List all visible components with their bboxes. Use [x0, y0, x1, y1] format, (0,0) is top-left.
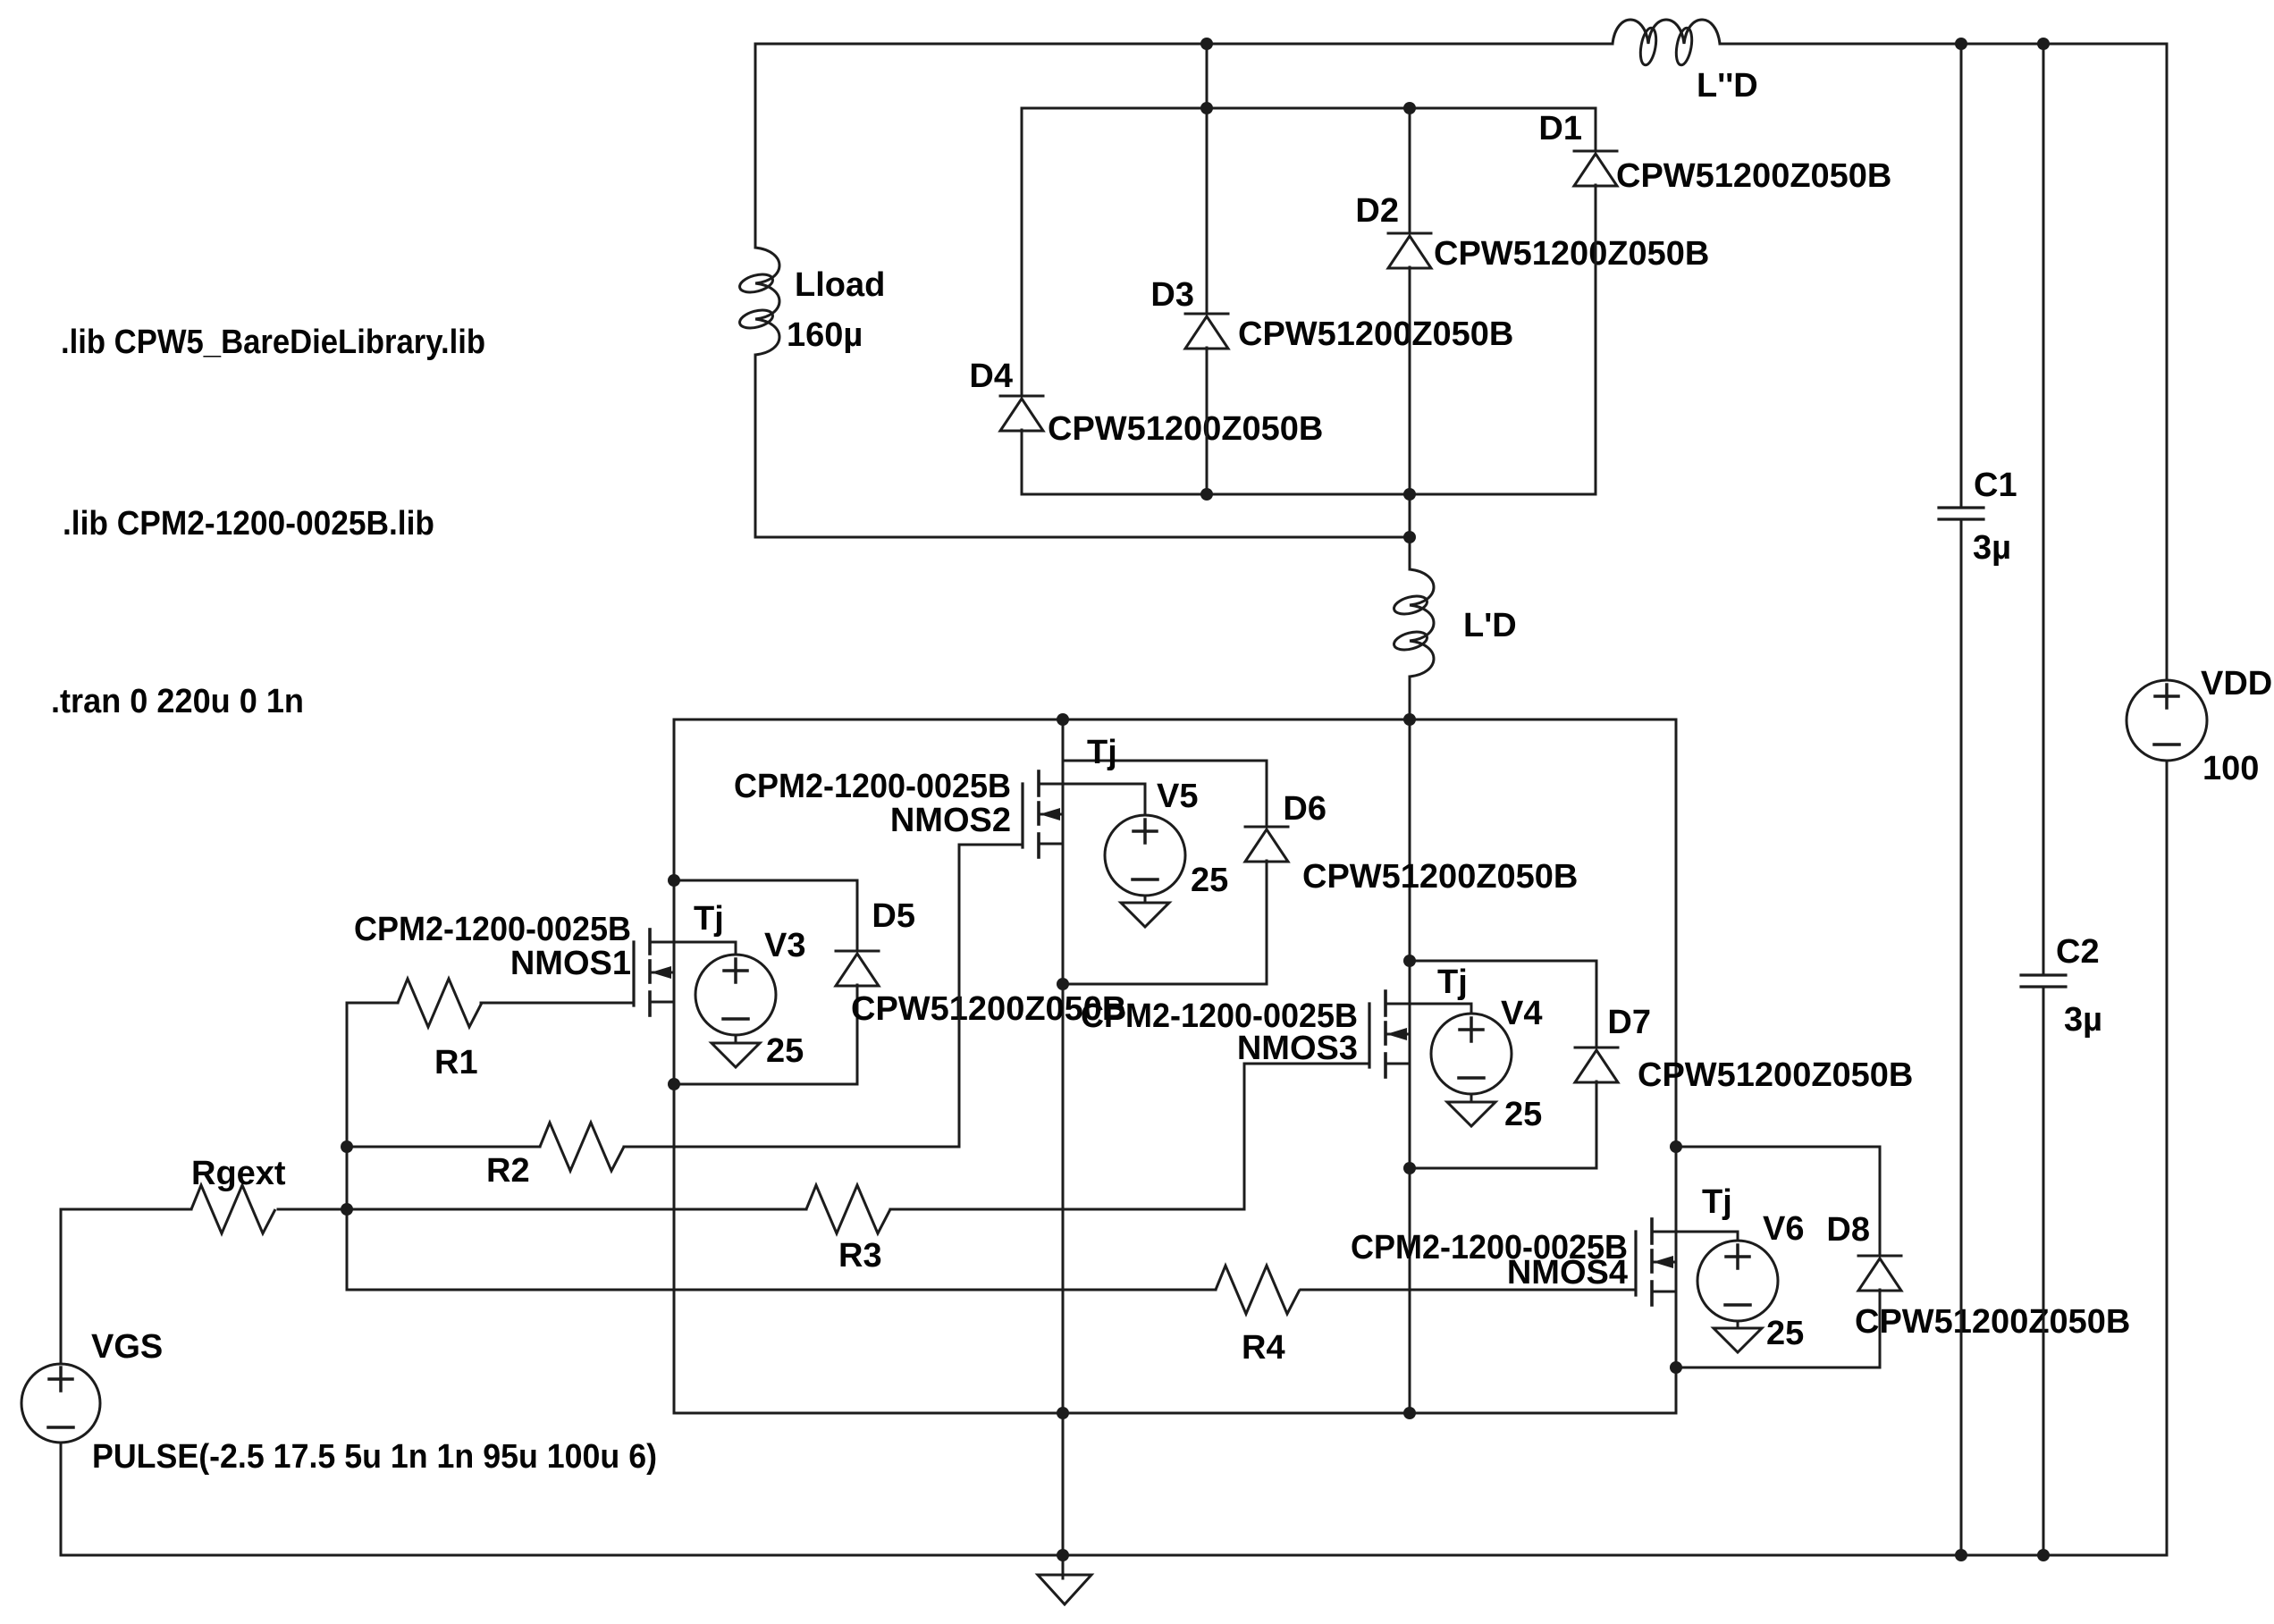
- svg-text:25: 25: [1766, 1315, 1804, 1352]
- ground below V6: [1714, 1328, 1762, 1352]
- wire: V3/D5 box bottom: [674, 1083, 857, 1086]
- svg-text:D8: D8: [1826, 1211, 1870, 1249]
- svg-text:D3: D3: [1150, 276, 1194, 314]
- svg-text:CPW51200Z050B: CPW51200Z050B: [1638, 1056, 1913, 1094]
- ground below V5: [1121, 903, 1169, 927]
- wire: D4 column: [1021, 108, 1023, 396]
- svg-text:3µ: 3µ: [2064, 1001, 2102, 1039]
- voltage source VDD 100: [2127, 680, 2207, 761]
- wire: V4/D7 box bottom: [1410, 1167, 1596, 1170]
- wire: NMOS1 drain lead / Tj to V3: [650, 941, 736, 944]
- voltage source V4 (Tj temperature 25): [1431, 1014, 1512, 1094]
- node: D3 top rail tap: [1200, 38, 1213, 50]
- node: top rail / C2: [2037, 38, 2050, 50]
- wire: V3 minus stub: [735, 1035, 737, 1043]
- wire: V6 minus stub: [1737, 1321, 1739, 1328]
- capacitor C1 3u: [1939, 506, 1983, 509]
- svg-text:V5: V5: [1157, 778, 1198, 815]
- transistor NMOS2 CPM2-1200-0025B: [1023, 771, 1063, 857]
- voltage source V6 (Tj temperature 25): [1697, 1241, 1778, 1321]
- node: D3 inner box bottom: [1200, 488, 1213, 501]
- diode D2 CPW51200Z050B: [1388, 232, 1431, 235]
- voltage source VGS PULSE: [21, 1364, 100, 1443]
- voltage source V5 (Tj temperature 25): [1105, 815, 1185, 896]
- wire: V6/D8 box top: [1676, 1146, 1880, 1149]
- svg-text:Tj: Tj: [1437, 963, 1468, 1001]
- svg-text:Tj: Tj: [1087, 734, 1117, 771]
- voltage source V3 (Tj temperature 25): [695, 955, 776, 1035]
- ground below V4: [1447, 1102, 1495, 1126]
- wire: V5 minus stub: [1144, 896, 1147, 903]
- diode D6 CPW51200Z050B: [1245, 826, 1288, 829]
- ground below V3: [712, 1043, 760, 1067]
- resistor R4: [347, 1289, 1216, 1292]
- node: L'D on top rail: [1403, 713, 1416, 726]
- wire: V4 plus stub: [1470, 1004, 1473, 1014]
- node: NMOS3 drain box corner: [1403, 955, 1416, 967]
- node: D2 inner box top: [1403, 102, 1416, 114]
- diode D3 CPW51200Z050B: [1185, 313, 1228, 316]
- svg-text:NMOS4: NMOS4: [1507, 1254, 1628, 1292]
- wire: D2 column to switch node: [1409, 494, 1411, 569]
- wire: C1 column: [1960, 44, 1963, 508]
- svg-text:C1: C1: [1974, 467, 2017, 504]
- svg-text:Rgext: Rgext: [191, 1155, 286, 1192]
- svg-text:100: 100: [2202, 750, 2259, 787]
- wire: inner diode box bottom: [1022, 493, 1596, 496]
- svg-text:V4: V4: [1501, 995, 1542, 1032]
- wire: NMOS2 Tj line / V5-D6 box top: [1063, 760, 1267, 762]
- node: NMOS4 source box corner: [1670, 1361, 1682, 1374]
- svg-text:25: 25: [1191, 862, 1228, 899]
- node: bottom rail / NMOS3 source column: [1403, 1407, 1416, 1419]
- wire: NMOS3 source column: [1409, 719, 1411, 1413]
- node: ground rail / C2: [2037, 1549, 2050, 1561]
- svg-text:R3: R3: [838, 1237, 882, 1275]
- svg-text:3µ: 3µ: [1973, 529, 2011, 567]
- resistor R2: [347, 1146, 540, 1149]
- svg-text:D7: D7: [1607, 1004, 1651, 1041]
- wire: VDD column top: [2166, 44, 2169, 680]
- wire: NMOS3 drain lead to V4: [1385, 1003, 1471, 1006]
- svg-text:Lload: Lload: [795, 266, 885, 304]
- wire: V4/D7 box top: [1410, 960, 1596, 963]
- svg-text:160µ: 160µ: [787, 316, 863, 354]
- inductor L''D: [1613, 20, 1720, 44]
- svg-text:D6: D6: [1283, 790, 1326, 828]
- node: NMOS1 source box corner: [668, 1078, 680, 1090]
- capacitor C2 3u: [2021, 973, 2066, 976]
- diode D1 CPW51200Z050B: [1574, 150, 1617, 153]
- node: NMOS4 drain box corner: [1670, 1140, 1682, 1153]
- wire: NMOS3 gate riser from R3: [1243, 1064, 1246, 1209]
- wire: bridge to ground rail: [1062, 1413, 1065, 1555]
- svg-text:L'D: L'D: [1463, 607, 1517, 644]
- wire: V5/D6 box bottom: [1063, 983, 1267, 986]
- node: top rail / C1: [1955, 38, 1967, 50]
- svg-text:VGS: VGS: [91, 1328, 163, 1366]
- wire: D2 column: [1409, 108, 1411, 233]
- svg-text:CPW51200Z050B: CPW51200Z050B: [1238, 316, 1513, 353]
- wire: VDD to ground rail: [2166, 761, 2169, 1555]
- wire: D3 column: [1206, 44, 1209, 314]
- node: D3 inner box top: [1200, 102, 1213, 114]
- svg-text:V6: V6: [1763, 1210, 1804, 1248]
- wire: VGS to Rgext: [60, 1209, 63, 1364]
- transistor NMOS4 CPM2-1200-0025B: [1636, 1219, 1676, 1305]
- node: V5 box bottom on source column: [1057, 978, 1069, 990]
- node: R2 tap: [341, 1140, 353, 1153]
- svg-text:CPM2-1200-0025B: CPM2-1200-0025B: [354, 911, 631, 948]
- diode D7 CPW51200Z050B: [1575, 1047, 1618, 1049]
- svg-text:PULSE(-2.5 17.5 5u 1n 1n 95u 1: PULSE(-2.5 17.5 5u 1n 1n 95u 100u 6): [92, 1438, 657, 1476]
- inductor Lload 160u: [755, 248, 779, 355]
- svg-text:L''D: L''D: [1697, 67, 1758, 105]
- svg-text:NMOS1: NMOS1: [510, 945, 631, 982]
- wire: NMOS3 gate lead: [1244, 1063, 1369, 1065]
- wire: V4 minus stub: [1470, 1094, 1473, 1102]
- wire: V6 plus stub: [1737, 1232, 1739, 1241]
- wire: L'D to bridge top rail: [1409, 677, 1411, 719]
- diode D4 CPW51200Z050B: [1000, 395, 1043, 398]
- node: bottom rail / NMOS2 source column: [1057, 1407, 1069, 1419]
- wire: D5 column: [856, 880, 859, 951]
- wire: outer loop bottom: [755, 536, 1410, 539]
- svg-text:CPM2-1200-0025B: CPM2-1200-0025B: [734, 768, 1011, 805]
- svg-text:R4: R4: [1242, 1329, 1285, 1367]
- wire: D8 column: [1879, 1147, 1882, 1256]
- wire: C2 column: [2042, 44, 2045, 975]
- transistor NMOS3 CPM2-1200-0025B: [1369, 991, 1410, 1077]
- ground symbol: [1062, 1555, 1065, 1578]
- svg-text:Tj: Tj: [1702, 1183, 1732, 1221]
- wire: bridge left edge: [673, 719, 676, 1413]
- svg-text:V3: V3: [764, 927, 805, 964]
- wire: NMOS2 source column: [1062, 719, 1065, 1413]
- wire: D1 column: [1595, 108, 1597, 151]
- wire: NMOS4 drain lead to V6: [1652, 1231, 1738, 1233]
- resistor Rgext: [61, 1208, 191, 1211]
- node: ground rail / bridge column: [1057, 1549, 1069, 1561]
- svg-text:.tran 0 220u 0 1n: .tran 0 220u 0 1n: [51, 683, 304, 720]
- svg-text:R1: R1: [434, 1044, 478, 1081]
- inductor L'D: [1410, 569, 1434, 677]
- wire: V5 plus stub: [1144, 784, 1147, 815]
- wire: V3/D5 box top: [674, 879, 857, 882]
- wire: VGS to ground rail: [60, 1443, 63, 1555]
- node: ground rail / C1: [1955, 1549, 1967, 1561]
- svg-text:D2: D2: [1355, 192, 1399, 230]
- svg-text:VDD: VDD: [2201, 665, 2272, 703]
- node: D2 inner box bottom: [1403, 488, 1416, 501]
- node: NMOS3 source box corner: [1403, 1162, 1416, 1174]
- wire: bridge right edge: [1675, 719, 1678, 1413]
- wire: V6/D8 box bottom: [1676, 1367, 1880, 1369]
- wire: D7 column: [1596, 961, 1598, 1048]
- wire: ground rail: [61, 1554, 2167, 1557]
- wire: top supply rail: [755, 43, 1613, 46]
- wire: NMOS2 drain lead to V5: [1039, 783, 1145, 786]
- svg-text:25: 25: [1504, 1096, 1542, 1133]
- wire: bridge top rail: [674, 719, 1676, 721]
- wire: NMOS2 gate riser from R2: [958, 845, 961, 1147]
- wire: gate bus column: [346, 1003, 349, 1290]
- svg-text:C2: C2: [2056, 933, 2100, 971]
- wire: bridge bottom rail: [674, 1412, 1676, 1415]
- svg-text:D5: D5: [872, 897, 915, 935]
- wire: V3 plus stub: [735, 942, 737, 955]
- svg-text:D4: D4: [969, 358, 1013, 395]
- svg-text:NMOS3: NMOS3: [1237, 1030, 1358, 1067]
- svg-text:R2: R2: [486, 1152, 530, 1190]
- wire: NMOS2 gate lead: [959, 844, 1023, 846]
- node: NMOS2 drain on top rail: [1057, 713, 1069, 726]
- svg-text:CPW51200Z050B: CPW51200Z050B: [1616, 157, 1891, 195]
- wire: Lload to bottom loop: [754, 355, 757, 537]
- svg-text:D1: D1: [1538, 110, 1582, 147]
- svg-text:25: 25: [766, 1032, 804, 1070]
- wire: left branch down to Lload: [754, 44, 757, 248]
- svg-text:NMOS2: NMOS2: [890, 802, 1011, 839]
- diode D5 CPW51200Z050B: [836, 950, 879, 953]
- svg-text:CPW51200Z050B: CPW51200Z050B: [1855, 1303, 2130, 1341]
- node: bottom loop / L'D junction: [1403, 531, 1416, 543]
- node: Rgext tap: [341, 1203, 353, 1216]
- svg-text:.lib CPW5_BareDieLibrary.lib: .lib CPW5_BareDieLibrary.lib: [61, 324, 485, 361]
- resistor R3: [347, 1208, 806, 1211]
- wire: D6 column: [1266, 761, 1268, 827]
- node: NMOS1 drain box corner: [668, 874, 680, 887]
- svg-text:Tj: Tj: [694, 900, 724, 938]
- svg-text:CPW51200Z050B: CPW51200Z050B: [1302, 858, 1578, 896]
- svg-text:.lib CPM2-1200-0025B.lib: .lib CPM2-1200-0025B.lib: [63, 505, 434, 543]
- resistor R1: [347, 1002, 398, 1005]
- transistor NMOS1 CPM2-1200-0025B: [634, 930, 674, 1015]
- svg-text:CPW51200Z050B: CPW51200Z050B: [1434, 235, 1709, 273]
- wire: inner diode box top: [1022, 107, 1596, 110]
- diode D8 CPW51200Z050B: [1858, 1255, 1901, 1258]
- svg-text:CPW51200Z050B: CPW51200Z050B: [1048, 410, 1323, 448]
